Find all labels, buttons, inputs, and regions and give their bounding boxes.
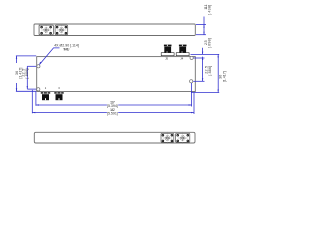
- hole top-left: [37, 65, 40, 68]
- connector J2 (bottom, front view): [54, 92, 63, 100]
- bottom dimension 142 [5.591]: [32, 90, 194, 114]
- dimension 2.5 [.098] (connector standoff): [191, 48, 220, 55]
- footprint P4 (bottom view): [176, 132, 190, 144]
- top view outline: [34, 24, 195, 36]
- dimension 11.1 [.438] (top view height): [196, 17, 206, 35]
- svg-text:J4: J4: [180, 57, 183, 61]
- svg-text:[.886]: [.886]: [25, 69, 29, 79]
- top view left end cell divider: [38, 24, 40, 35]
- right outer dimension text: [219, 71, 227, 82]
- hole mid-right: [190, 80, 193, 83]
- connector J5 (top, front view): [161, 45, 174, 56]
- dimension text 11.1 [.438]: [204, 5, 212, 16]
- connector J1 (bottom, front view): [41, 92, 50, 100]
- svg-text:3: 3: [58, 86, 60, 90]
- right inner dimension 22.5 [.886]: [193, 57, 204, 82]
- bottom dimension 137 [5.394]: [36, 83, 192, 107]
- hole callout leader: [40, 48, 60, 65]
- front view outline: [37, 57, 196, 92]
- footprint P3 (bottom view): [161, 132, 174, 144]
- svg-text:[.098]: [.098]: [207, 38, 211, 48]
- bottom view outline: [34, 132, 195, 143]
- svg-text:[5.591]: [5.591]: [107, 112, 118, 116]
- svg-text:THRU: THRU: [63, 48, 70, 52]
- hole bottom-left: [37, 88, 40, 91]
- svg-text:[1.417]: [1.417]: [222, 71, 226, 82]
- footprint P1 (top view): [39, 24, 53, 36]
- right outer dimension 36 [1.417]: [191, 54, 219, 92]
- left inner dimension text: [22, 69, 29, 79]
- svg-text:J5: J5: [165, 57, 168, 61]
- svg-text:1: 1: [45, 86, 47, 90]
- left inner dimension 22.5 [.886]: [27, 66, 36, 89]
- left outer dimension 36 [1.417]: [16, 56, 36, 91]
- pad pinholes: [41, 27, 188, 142]
- footprint P2 (top view): [55, 24, 68, 36]
- svg-text:[.438]: [.438]: [207, 5, 211, 16]
- hole top-right: [190, 56, 193, 59]
- dimension 2.5 [.098] text: [204, 38, 212, 48]
- connector J4 (top, front view): [176, 45, 189, 56]
- right inner dimension text: [205, 66, 212, 76]
- svg-text:[.886]: [.886]: [208, 66, 212, 76]
- left outer dimension text: [15, 68, 23, 79]
